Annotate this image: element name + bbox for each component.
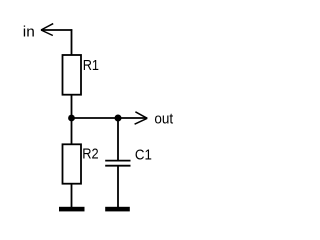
wire top vertical (71, 29, 73, 55)
wire R2 bottom (71, 184, 73, 208)
svg-text:R1: R1 (83, 58, 99, 74)
wire node A to R2 (71, 118, 73, 145)
svg-text:out: out (154, 111, 173, 127)
ground (left, below R2) (59, 207, 85, 212)
resistor R1 (63, 55, 82, 95)
svg-text:in: in (23, 24, 35, 40)
wire mid horizontal to out (72, 117, 148, 119)
junction node B (115, 115, 122, 122)
capacitor C1 bottom plate (105, 165, 130, 167)
wire R1 bottom (71, 95, 73, 118)
output arrowhead (135, 112, 148, 124)
resistor R2 (63, 144, 82, 183)
junction node A (68, 115, 75, 122)
ground (right, below C1) (105, 207, 130, 212)
wire C1 bottom (117, 166, 119, 208)
wire in arrow horizontal (41, 29, 72, 31)
svg-text:R2: R2 (82, 146, 98, 162)
svg-text:C1: C1 (135, 148, 152, 164)
capacitor C1 top plate (105, 160, 130, 162)
input arrowhead (41, 24, 53, 36)
wire node B to C1 top (117, 118, 119, 161)
